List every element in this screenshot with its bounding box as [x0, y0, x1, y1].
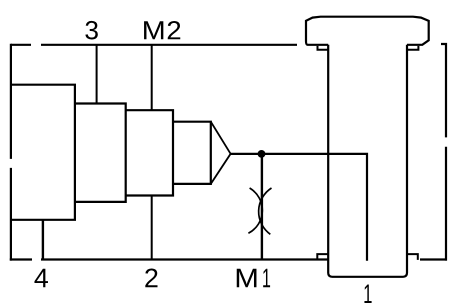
port M1 line — [261, 154, 263, 260]
plug body step 1 — [11, 84, 75, 221]
label 1 — [364, 285, 371, 303]
cartridge plug 1 body — [328, 45, 407, 277]
axis wire from cone tip — [231, 154, 367, 261]
plug body step 4 — [173, 121, 211, 185]
port 2 line — [151, 196, 153, 260]
junction node dot — [258, 150, 266, 158]
label M1 — [237, 269, 270, 287]
plug hat left notch — [318, 46, 329, 50]
label 3 — [85, 21, 97, 40]
plug body step 2 — [75, 102, 126, 203]
port 4 line — [42, 220, 44, 260]
port 3 line — [96, 45, 98, 104]
boundary left edge — [10, 44, 12, 261]
boundary top rail — [11, 44, 297, 46]
label 4 — [34, 269, 48, 287]
nose cone — [211, 122, 231, 184]
cartridge plug 1 hat — [306, 17, 429, 45]
label M2 — [144, 21, 180, 39]
port M2 line — [151, 45, 153, 110]
plug bottom left notch — [317, 254, 328, 259]
plug body step 3 — [126, 109, 173, 197]
label 2 — [145, 268, 157, 287]
boundary bottom rail — [10, 258, 447, 260]
boundary right edge — [441, 44, 446, 261]
orifice restrictor symbol — [248, 188, 271, 234]
plug bottom right notch — [407, 254, 418, 260]
plug hat right notch — [407, 46, 418, 50]
